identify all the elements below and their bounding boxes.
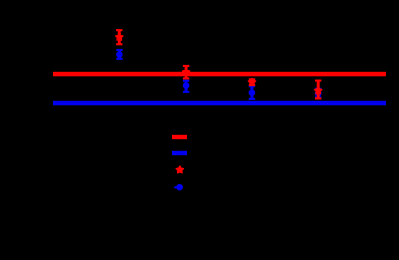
red errorbar point 4 xyxy=(314,80,322,100)
blue horizontal reference line xyxy=(53,101,386,106)
red errorbar point 3 xyxy=(248,78,256,86)
legend: red star marker sample xyxy=(176,166,184,173)
legend: red line swatch xyxy=(172,135,187,139)
blue errorbar point 2 xyxy=(183,80,190,93)
blue errorbar point 4 xyxy=(315,88,322,99)
red errorbar point 1 xyxy=(115,29,123,45)
red errorbar point 2 xyxy=(182,65,190,80)
blue errorbar point 3 xyxy=(249,85,256,100)
legend: blue circle marker sample xyxy=(174,184,183,191)
red horizontal reference line xyxy=(53,72,386,77)
blue errorbar point 1 xyxy=(116,49,123,60)
legend: blue line swatch xyxy=(172,151,187,155)
